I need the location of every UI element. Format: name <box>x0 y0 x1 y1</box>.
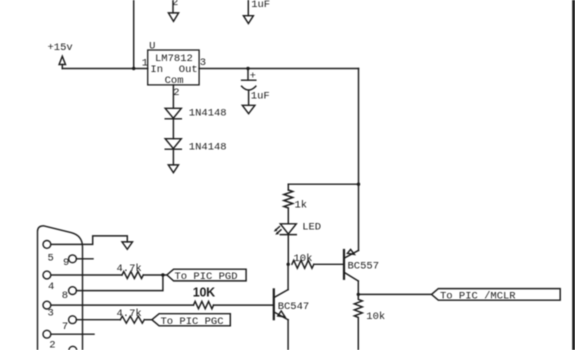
svg-text:9: 9 <box>63 257 69 269</box>
svg-text:5: 5 <box>48 253 54 265</box>
svg-text:1uF: 1uF <box>251 0 270 11</box>
svg-text:U: U <box>149 41 155 53</box>
svg-text:10k: 10k <box>294 253 313 265</box>
svg-text:To PIC /MCLR: To PIC /MCLR <box>440 290 516 302</box>
svg-text:Com: Com <box>165 75 184 87</box>
svg-text:4.7k: 4.7k <box>117 263 142 275</box>
svg-text:To PIC PGC: To PIC PGC <box>161 316 224 328</box>
svg-text:1uF: 1uF <box>251 90 270 102</box>
svg-text:+: + <box>250 70 256 82</box>
svg-text:2: 2 <box>172 0 178 9</box>
svg-text:1k: 1k <box>295 200 308 212</box>
svg-text:2: 2 <box>173 87 179 99</box>
svg-text:BC557: BC557 <box>348 261 380 273</box>
svg-text:LED: LED <box>302 222 321 234</box>
svg-text:4: 4 <box>48 281 54 293</box>
svg-text:In: In <box>150 64 163 76</box>
svg-text:+15v: +15v <box>48 42 73 54</box>
svg-text:1N4148: 1N4148 <box>189 108 227 120</box>
svg-text:3: 3 <box>48 307 54 319</box>
svg-text:8: 8 <box>62 290 68 302</box>
svg-text:BC547: BC547 <box>278 301 310 313</box>
svg-text:2: 2 <box>49 339 55 350</box>
svg-text:10k: 10k <box>366 311 385 323</box>
svg-text:10K: 10K <box>193 285 215 299</box>
svg-text:To PIC PGD: To PIC PGD <box>175 271 238 283</box>
svg-text:1N4148: 1N4148 <box>189 142 227 154</box>
svg-text:7: 7 <box>62 321 68 333</box>
svg-text:1: 1 <box>142 58 148 70</box>
svg-text:3: 3 <box>200 57 206 69</box>
svg-text:4.7k: 4.7k <box>117 308 142 320</box>
